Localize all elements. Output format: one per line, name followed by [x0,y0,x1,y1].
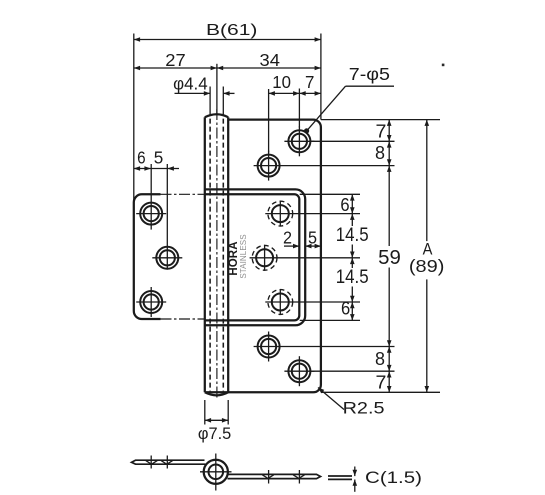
dim 14.5 upper [351,214,353,226]
dim 5 left [167,166,174,171]
dim 7 top [299,92,321,94]
left leaf hole A [140,203,162,225]
dim 14.5 lower [351,258,353,268]
dim 6 plate top [351,194,353,213]
svg-text:14.5: 14.5 [336,266,369,288]
hidden pin line right [222,119,224,392]
scan artifact dot [442,64,445,67]
dim phi4.4 [175,92,211,94]
barrel left edge [204,117,206,392]
ext line leaf right top [320,34,322,120]
side view barrel circle [204,460,228,484]
dim 27 [134,67,217,69]
right leaf outline [205,120,321,393]
side view left leaf [132,460,206,464]
barrel right edge [227,117,229,392]
barrel top cap [205,114,228,117]
dim C(1.5) arrows [354,467,356,477]
dim 7 right bottom [388,371,390,392]
side view hole ticks left [150,456,152,469]
ext lines 6 5 [150,164,152,230]
svg-text:34: 34 [260,50,281,70]
left leaf hole B [156,247,178,269]
dim 59 [388,166,390,246]
barrel bottom cap [205,392,228,395]
dim 34 [217,67,321,69]
pin centerline [216,109,218,398]
dim 8 right top [388,141,390,165]
dim phi7.5 [204,400,206,425]
svg-text:STAINLESS: STAINLESS [239,234,248,278]
svg-text:6: 6 [340,195,349,215]
dim 10 [268,89,270,153]
dim 8 right bottom [388,347,390,372]
svg-text:7: 7 [305,72,314,92]
svg-text:5: 5 [154,147,164,167]
svg-text:14.5: 14.5 [336,224,369,246]
side view hole ticks right [268,470,270,484]
svg-text:27: 27 [165,50,185,70]
svg-text:5: 5 [308,228,317,248]
hole row1 (top right) [288,130,310,152]
svg-text:8: 8 [375,349,385,369]
side view countersink marks left [146,461,173,464]
side view right leaf [228,474,321,478]
side view countersink marks right [262,475,304,478]
plate hole row3 [272,205,289,222]
svg-text:R2.5: R2.5 [343,399,385,418]
left leaf top edge centerline [161,193,205,195]
svg-text:6: 6 [341,298,350,318]
hole row7 (bottom right) [288,360,310,382]
label R2.5 with leader [318,388,344,410]
svg-text:2: 2 [283,228,292,248]
dim C(1.5) plates [328,475,352,477]
centerline ext to dim 27/34 [216,64,218,114]
dim 7 right top [388,120,390,142]
left leaf bottom edge centerline [161,318,205,320]
svg-text:7: 7 [376,372,387,392]
svg-text:7-φ5: 7-φ5 [349,64,390,84]
svg-text:8: 8 [375,143,385,163]
dim B(61) [134,39,321,41]
left leaf hole C [140,291,162,313]
ext lines right side [321,119,440,121]
dim 6 plate bottom [351,302,353,320]
svg-text:7: 7 [376,122,387,142]
hidden pin line left [209,119,211,392]
svg-text:C(1.5): C(1.5) [365,468,422,487]
svg-text:59: 59 [378,247,401,269]
dim 2 [284,245,299,247]
left leaf outline [134,194,161,319]
svg-text:(89): (89) [409,256,445,276]
hole row6 [258,336,280,358]
plate hole row4 [256,249,273,266]
svg-text:φ4.4: φ4.4 [173,73,208,93]
dim 6 left [134,168,180,170]
dim 5 plate gap [305,245,321,247]
svg-text:φ7.5: φ7.5 [198,424,231,443]
hole row2 [258,155,280,177]
side view barrel crosshair [215,454,217,491]
svg-text:10: 10 [272,72,291,92]
dim A(89) [426,120,428,242]
ext line leaf left [133,34,135,202]
svg-text:6: 6 [137,147,146,167]
centre plate inner edge [205,194,299,320]
plate hole row5 [272,294,289,311]
centre plate outer edge [205,189,305,325]
svg-text:B(61): B(61) [206,22,257,39]
